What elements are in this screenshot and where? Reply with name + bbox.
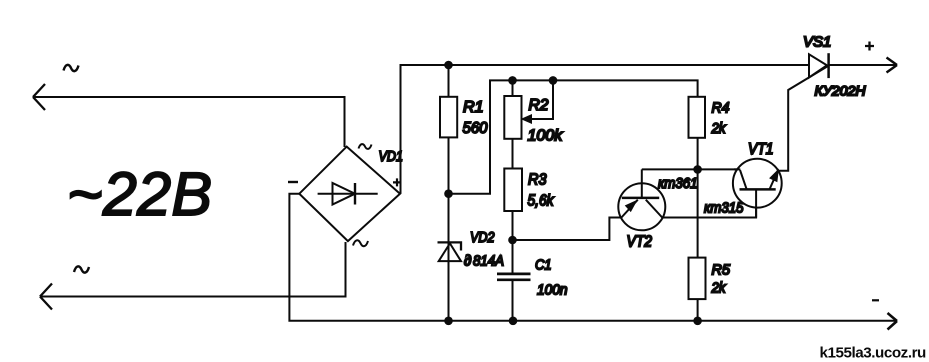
node ~ (bridge bottom tilde) [353,240,368,246]
resistor R1 [440,97,457,138]
wire node A: R4 bottom to VT2 base and VT1 collector [642,168,740,170]
node ~ (bottom-left tilde) [74,266,89,272]
svg-text:кm315: кm315 [704,200,744,217]
svg-text:R3: R3 [528,172,547,189]
transistor VT2 (PNP) [618,169,665,230]
svg-text:2k: 2k [711,280,727,297]
svg-text:~22В: ~22В [67,160,212,228]
svg-text:100n: 100n [537,282,568,299]
wire R2/R3 divider branch [512,80,514,320]
wire bottom rail arrow (minus output) [888,313,898,330]
node: bottom rail / C1 [509,317,518,326]
svg-text:C1: C1 [535,257,552,274]
capacitor C1 [497,274,531,280]
svg-text:R2: R2 [529,97,549,114]
svg-text:VD1: VD1 [379,148,404,165]
svg-text:VT1: VT1 [748,141,774,158]
node ~ (bridge top tilde) [359,144,372,149]
svg-text:814A: 814A [473,253,504,270]
svg-text:k155la3.ucoz.ru: k155la3.ucoz.ru [820,345,927,362]
svg-text:КУ202Н: КУ202Н [815,84,866,99]
svg-text:VT2: VT2 [627,234,653,251]
resistor R3 [504,169,522,212]
thyristor VS1 [809,53,829,78]
resistor R2 (potentiometer) [504,96,521,139]
label - (output minus) [872,299,879,301]
svg-text:R5: R5 [712,262,731,279]
node: top rail / R1 [444,61,453,70]
wire R3 bottom to VT2 emitter [513,218,622,241]
node: divider rail / wiper [549,76,558,85]
resistor R5 [689,258,706,300]
svg-text:5,6k: 5,6k [528,193,555,210]
node: divider rail / R2 top [508,76,517,85]
wire bridge minus output to bottom rail [289,194,896,321]
wire top-left AC input with arrow [33,84,345,147]
svg-text:2k: 2k [711,120,727,137]
svg-text:VD2: VD2 [470,229,495,246]
node: bottom rail / R5 [693,317,702,326]
transistor VT1 (NPN) [733,159,782,218]
wire VT1 emitter up to thyristor gate [778,66,828,171]
zener diode VD2 [438,242,462,261]
node: R4 bottom / bases [693,165,702,174]
svg-text:кm361: кm361 [658,175,698,192]
svg-text:R1: R1 [463,99,484,116]
wire thyristor cathode to plus output arrow [829,58,897,73]
junction dots [444,61,702,325]
node: bottom rail / VD2 [444,317,453,326]
label + (bridge plus) [393,178,401,186]
label + (output plus) [865,42,874,51]
wire bottom-left AC input with arrow [40,242,346,310]
wire R1/VD2 branch (top rail to bottom rail) [448,65,450,321]
resistor R4 [689,97,706,138]
svg-text:∂: ∂ [464,253,471,270]
label - (bridge minus) [288,181,298,183]
bridge rectifier VD1 [299,147,400,242]
svg-text:100k: 100k [528,128,564,145]
wire R2 wiper [529,80,554,119]
wire reference node: R1 bottom across and up to divider rail, across to R4, down to R5 [449,80,698,320]
svg-text:560: 560 [463,120,488,137]
wire bridge plus output up to top rail [401,65,810,194]
node: R3 bottom / C1 / VT2 emitter [508,236,517,245]
node: R1 bottom / VD2 [444,189,453,198]
wire VT2 collector to VT1 base [662,189,756,217]
svg-text:VS1: VS1 [803,34,831,51]
svg-text:R4: R4 [712,100,730,117]
node ~ (top-left tilde) [64,65,79,71]
